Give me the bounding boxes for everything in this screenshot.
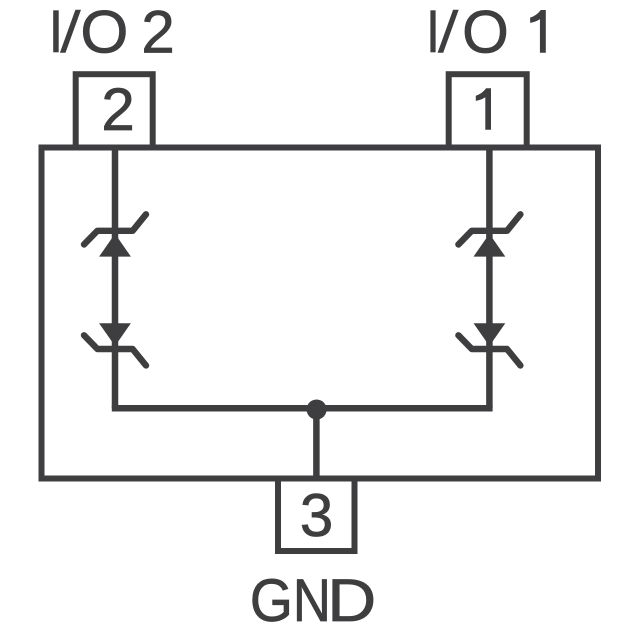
- svg-text:2: 2: [101, 76, 134, 143]
- svg-text:N: N: [293, 567, 331, 634]
- svg-text:O: O: [80, 0, 128, 66]
- svg-text:G: G: [250, 567, 293, 634]
- svg-text:D: D: [327, 567, 376, 634]
- svg-text:3: 3: [300, 482, 333, 549]
- svg-text:2: 2: [141, 0, 174, 66]
- svg-text:O: O: [462, 0, 509, 66]
